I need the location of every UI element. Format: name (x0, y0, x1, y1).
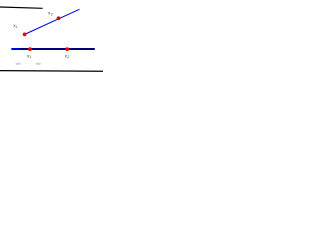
node x2 projection (65, 47, 69, 51)
wire blue displacement line (25, 9, 80, 34)
svg-text:x1: x1 (27, 53, 31, 59)
svg-text:x2: x2 (65, 53, 69, 59)
wire top reference line (0, 7, 43, 8)
node x1 on line (23, 33, 27, 37)
svg-text:x2: x2 (48, 12, 53, 17)
wire x-axis blue segment (11, 48, 19, 50)
wire x-axis navy segment (19, 48, 94, 50)
faint annotation marks (16, 63, 22, 65)
background (0, 0, 103, 83)
svg-text:x1: x1 (13, 23, 17, 29)
wire bottom baseline (0, 70, 103, 73)
node x1 projection (28, 47, 32, 51)
node x2 on line (57, 16, 61, 20)
